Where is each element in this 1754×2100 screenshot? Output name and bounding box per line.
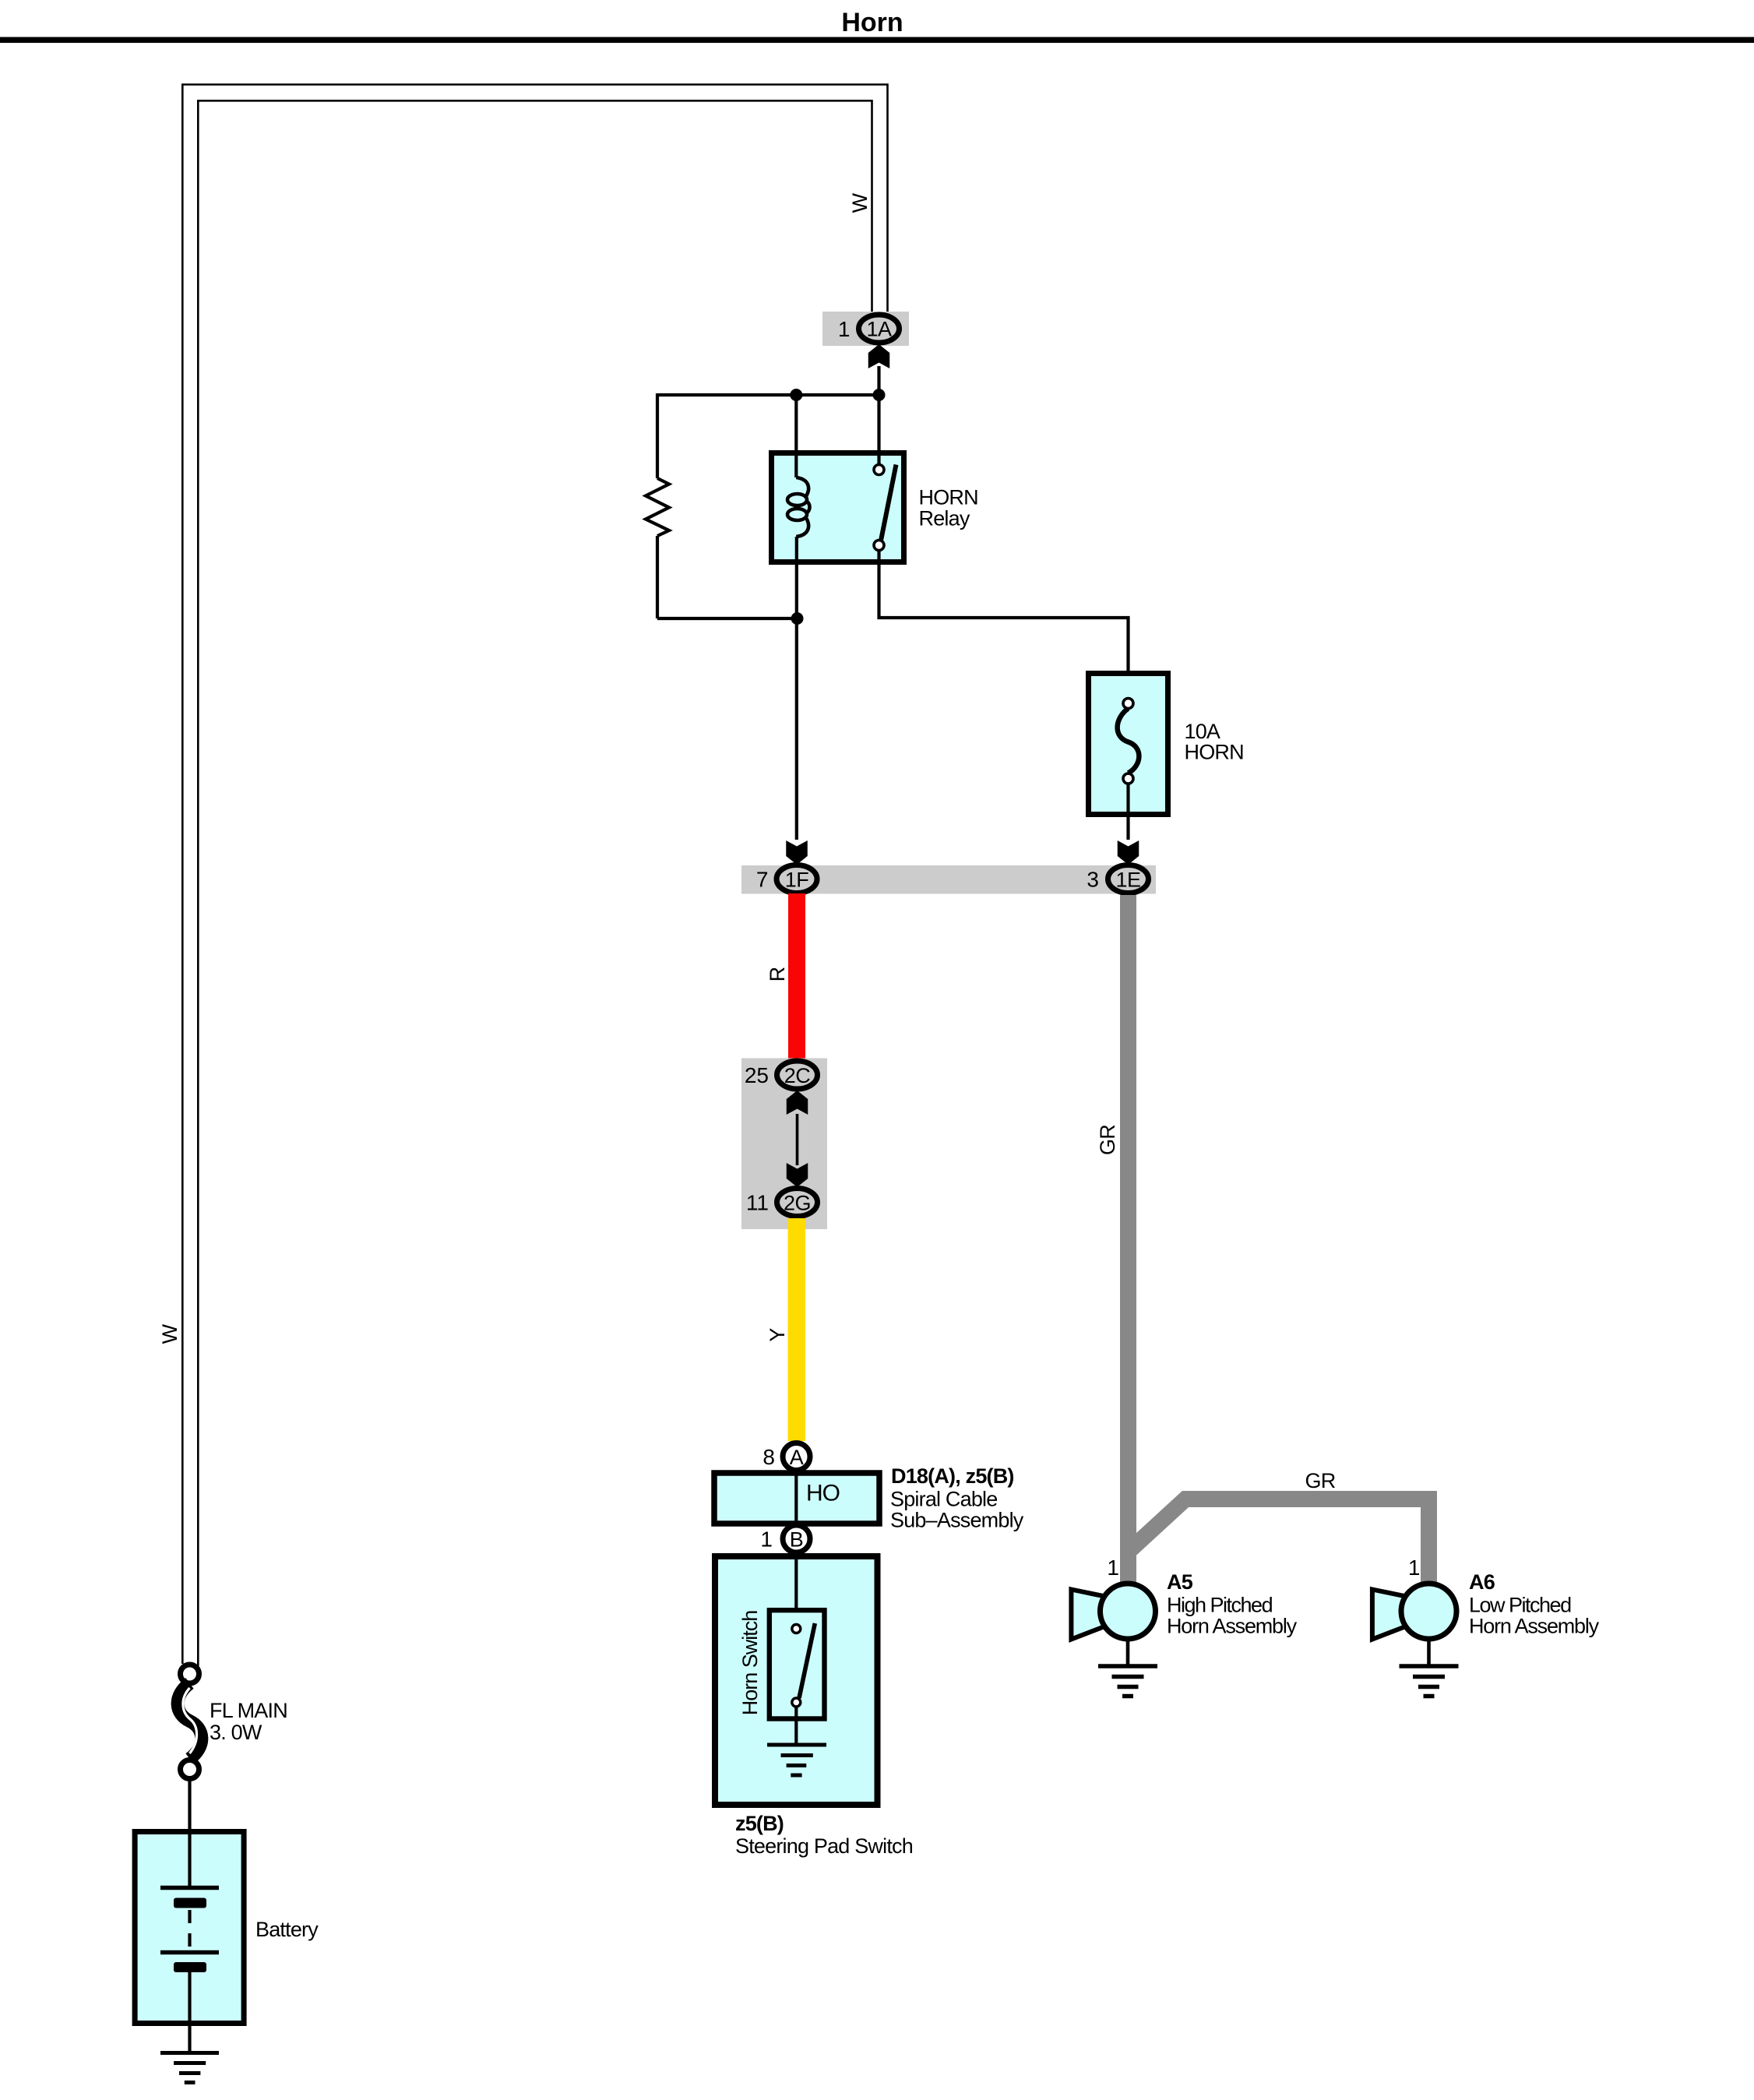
svg-text:GR: GR xyxy=(1305,1469,1336,1492)
relay coil xyxy=(796,477,808,496)
horn switch lever xyxy=(799,1623,815,1698)
svg-text:1: 1 xyxy=(838,317,851,341)
relay coil pin wire (bottom) down to 1F arrow xyxy=(795,537,798,840)
wire from resistor to bottom rail xyxy=(656,536,659,618)
svg-text:3: 3 xyxy=(1087,868,1099,892)
arrow into 1E xyxy=(1118,840,1139,865)
svg-text:25: 25 xyxy=(745,1063,769,1087)
wire Y (yellow) 2G to A xyxy=(788,1218,806,1441)
relay U1 HORN Relay box xyxy=(772,453,904,562)
svg-text:1E: 1E xyxy=(1115,869,1140,892)
svg-text:Horn: Horn xyxy=(841,8,903,37)
svg-text:FL MAIN: FL MAIN xyxy=(210,1699,287,1722)
title rule xyxy=(0,37,1754,44)
arrow into 1A xyxy=(868,344,890,368)
wire B to horn switch xyxy=(794,1552,798,1625)
wire W (battery to 1A, hollow double line) outer xyxy=(182,85,887,1665)
svg-text:Steering Pad Switch: Steering Pad Switch xyxy=(735,1834,913,1858)
fuse top contact xyxy=(1123,699,1133,709)
svg-text:Y: Y xyxy=(766,1328,789,1342)
battery plate 1 (long) xyxy=(160,1886,219,1890)
connector 1F oval xyxy=(777,865,817,893)
ground (A5) xyxy=(1098,1664,1157,1668)
wire through spiral cable box xyxy=(794,1471,798,1525)
horn A5 body circle xyxy=(1101,1584,1156,1639)
relay coil pin wire (top) xyxy=(794,395,798,477)
connector 1A oval xyxy=(859,315,900,343)
svg-text:A: A xyxy=(790,1446,804,1469)
relay switch bottom contact xyxy=(874,541,884,551)
svg-text:2C: 2C xyxy=(784,1064,811,1087)
spiral cable sub-assembly box xyxy=(714,1473,879,1524)
junction dot left xyxy=(790,389,802,401)
relay switch lever xyxy=(881,465,896,541)
horn A6 trumpet xyxy=(1372,1590,1408,1640)
svg-text:1F: 1F xyxy=(785,869,809,892)
svg-text:7: 7 xyxy=(756,868,769,892)
relay switch top contact xyxy=(874,465,884,475)
wire bottom rail to coil junction xyxy=(657,617,798,620)
svg-text:High Pitched: High Pitched xyxy=(1167,1594,1273,1617)
connector band 1F/1E xyxy=(741,865,1156,894)
battery box xyxy=(135,1832,244,2024)
connector B circle xyxy=(783,1525,810,1552)
horn A5 trumpet xyxy=(1071,1590,1107,1640)
junction dot coil bottom xyxy=(791,612,804,625)
arrow up to 2C xyxy=(787,1091,808,1115)
svg-text:1A: 1A xyxy=(866,318,892,341)
wire to resistor xyxy=(656,393,659,478)
wire GR (1E to A5) xyxy=(1120,895,1136,1584)
svg-text:D18(A), z5(B): D18(A), z5(B) xyxy=(891,1464,1014,1488)
connector 2G oval xyxy=(777,1189,818,1217)
svg-text:GR: GR xyxy=(1096,1125,1119,1155)
battery plate 4 (thick short) xyxy=(174,1962,206,1972)
wire A6 to ground xyxy=(1427,1639,1431,1666)
arrow down to 2G xyxy=(787,1163,808,1187)
wire fusible link to battery xyxy=(188,1779,191,1832)
wire to internal ground xyxy=(794,1707,798,1745)
relay switch pin wire (top) xyxy=(877,395,880,464)
wire between 2C and 2G arrows xyxy=(796,1114,799,1165)
svg-text:Horn Assembly: Horn Assembly xyxy=(1167,1615,1298,1638)
ground (battery) xyxy=(160,2051,219,2055)
horn switch inner box xyxy=(770,1610,825,1718)
wire from arrow to junction xyxy=(877,366,880,395)
svg-text:HORN: HORN xyxy=(1185,741,1244,764)
svg-text:B: B xyxy=(790,1528,804,1552)
connector 1A label plate xyxy=(822,312,909,346)
svg-text:A5: A5 xyxy=(1167,1570,1193,1594)
svg-text:1: 1 xyxy=(760,1527,773,1552)
svg-text:1: 1 xyxy=(1408,1556,1421,1580)
wire relay switch to fuse xyxy=(879,551,1129,675)
svg-text:Spiral Cable: Spiral Cable xyxy=(890,1488,997,1511)
svg-text:W: W xyxy=(158,1323,181,1344)
svg-text:Battery: Battery xyxy=(255,1918,319,1941)
ground (steering pad switch) xyxy=(767,1743,826,1747)
junction dot right xyxy=(873,389,886,401)
wire fuse to 1E arrow xyxy=(1126,784,1129,840)
svg-text:2G: 2G xyxy=(784,1192,811,1215)
svg-text:Sub–Assembly: Sub–Assembly xyxy=(890,1509,1024,1532)
wire R (red) 1F to 2C xyxy=(788,893,805,1059)
fusible link FL MAIN top terminal xyxy=(181,1665,199,1683)
svg-text:3. 0W: 3. 0W xyxy=(210,1721,262,1744)
svg-text:A6: A6 xyxy=(1469,1570,1495,1594)
arrow into 1F xyxy=(786,840,808,865)
fusible link FL MAIN bottom terminal xyxy=(181,1760,199,1779)
fusible link FL MAIN 3.0W element xyxy=(178,1683,202,1759)
battery plate 2 (thick short) xyxy=(174,1898,206,1908)
wire A5 to ground xyxy=(1126,1639,1130,1666)
svg-text:10A: 10A xyxy=(1185,720,1220,743)
battery internal bottom wire xyxy=(188,1972,191,2054)
connector block 2C/2G plate xyxy=(741,1059,827,1230)
svg-text:Low Pitched: Low Pitched xyxy=(1469,1594,1571,1617)
fuse bottom contact xyxy=(1123,773,1133,784)
svg-text:W: W xyxy=(848,192,872,213)
connector 1E oval xyxy=(1108,865,1149,893)
svg-text:HORN: HORN xyxy=(919,486,978,509)
fuse 10A HORN box xyxy=(1089,674,1168,815)
wire W (battery to 1A, hollow double line) inner xyxy=(198,100,872,1666)
horn A6 body circle xyxy=(1401,1584,1456,1639)
svg-text:z5(B): z5(B) xyxy=(735,1812,784,1835)
svg-text:8: 8 xyxy=(763,1445,775,1469)
svg-text:Relay: Relay xyxy=(919,507,970,530)
wire GR branch (to A6) xyxy=(1129,1499,1429,1584)
horn switch top contact xyxy=(792,1625,801,1633)
connector A circle xyxy=(783,1443,810,1471)
svg-text:R: R xyxy=(766,967,789,981)
ground (A6) xyxy=(1400,1664,1459,1668)
resistor (relay coil shunt) xyxy=(646,478,669,536)
svg-text:1: 1 xyxy=(1107,1556,1119,1580)
svg-text:HO: HO xyxy=(806,1481,840,1506)
connector 2C oval xyxy=(777,1061,818,1089)
battery plate 3 (long) xyxy=(160,1950,219,1955)
horn switch bottom contact xyxy=(792,1698,801,1707)
wire horizontal top of relay xyxy=(657,393,879,396)
battery internal top wire xyxy=(188,1832,191,1886)
svg-text:Horn Switch: Horn Switch xyxy=(738,1611,762,1716)
svg-text:11: 11 xyxy=(746,1191,769,1215)
steering pad switch box xyxy=(715,1556,878,1805)
svg-text:Horn Assembly: Horn Assembly xyxy=(1469,1615,1600,1638)
fuse element xyxy=(1118,709,1139,773)
battery dashed link xyxy=(188,1910,191,1950)
